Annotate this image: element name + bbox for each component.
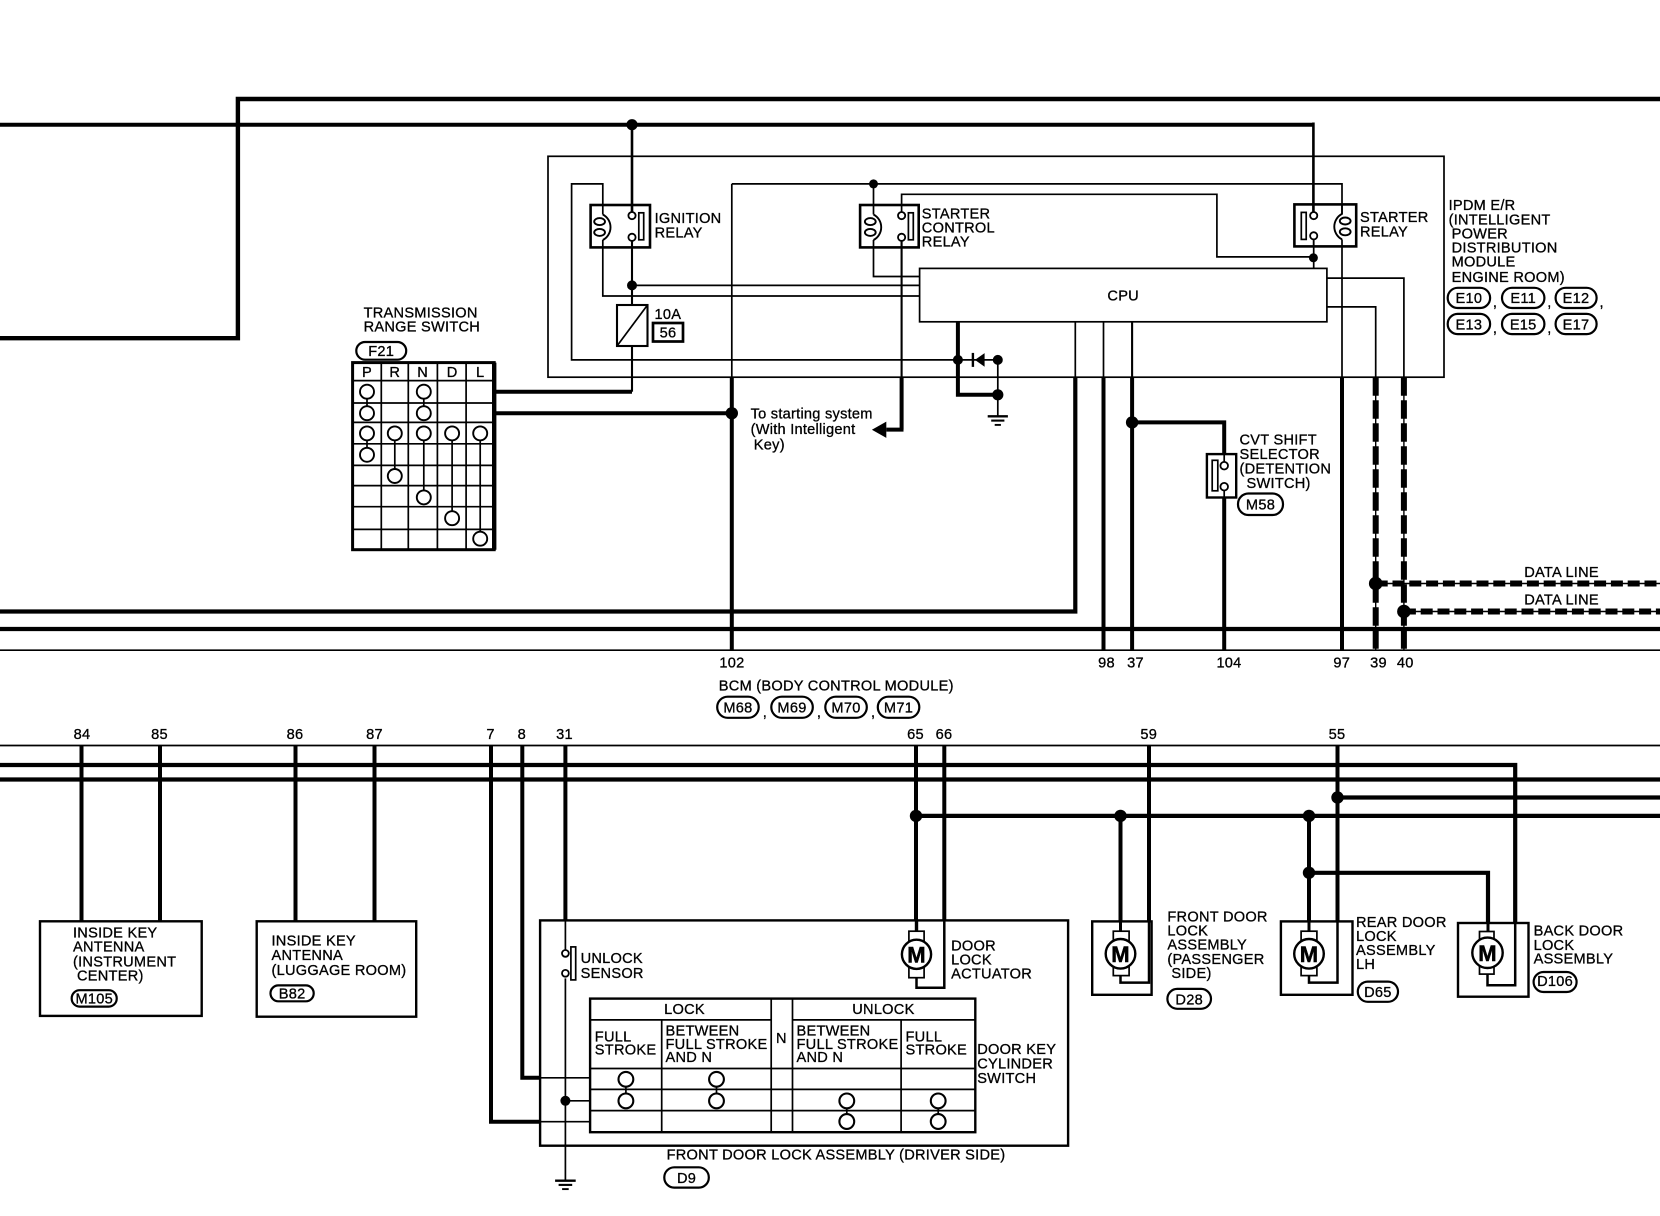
svg-text:CENTER): CENTER) (77, 969, 144, 985)
label door key cylinder switch (977, 1042, 1056, 1087)
label unlock sensor (581, 951, 644, 982)
ground IPDM (988, 416, 1008, 425)
wire pin 84 (80, 746, 84, 922)
junction sensor ground row2 (560, 1096, 570, 1106)
wire pin 65 (914, 746, 919, 933)
svg-text:40: 40 (1397, 655, 1414, 671)
door lock actuator motor M (902, 931, 931, 978)
wire ignition contact down (631, 241, 633, 286)
svg-text:ASSEMBLY: ASSEMBLY (1534, 952, 1614, 968)
wire CVT to pin 104 (1222, 498, 1226, 651)
front passenger motor M (1106, 931, 1136, 975)
wire TRS row2 to starting system node (494, 411, 732, 415)
label front door lock assembly driver side (667, 1147, 1006, 1163)
svg-text:UNLOCK: UNLOCK (581, 951, 643, 967)
wire CPU pin 98 (1103, 322, 1105, 650)
pin 65 (907, 727, 924, 743)
fuse number 56 (653, 323, 683, 342)
junction below ignition relay (627, 280, 637, 290)
bus line C (0, 765, 1515, 923)
node to starting system (726, 407, 738, 419)
connector E15 (1502, 314, 1552, 337)
front door lock assembly passenger box (1092, 921, 1151, 994)
svg-text:,: , (817, 705, 821, 721)
label BCM (719, 679, 954, 695)
svg-text:10A: 10A (655, 307, 682, 323)
svg-text:M71: M71 (884, 701, 913, 717)
svg-text:IPDM E/R: IPDM E/R (1449, 198, 1516, 214)
svg-text:M: M (1111, 942, 1130, 967)
svg-text:R: R (389, 365, 400, 381)
front door lock assembly driver side box (540, 920, 1068, 1145)
pin 104 (1216, 655, 1241, 671)
svg-text:55: 55 (1329, 727, 1346, 743)
wire junction to fuse (631, 285, 633, 305)
wire pin 86 (294, 746, 298, 922)
junction front passenger feed (1114, 810, 1126, 822)
svg-text:(LUGGAGE ROOM): (LUGGAGE ROOM) (272, 963, 407, 979)
svg-text:39: 39 (1370, 655, 1387, 671)
label starter relay (1360, 210, 1429, 241)
svg-text:E13: E13 (1456, 317, 1483, 333)
door key switch contacts (619, 1072, 946, 1129)
wire rear LH motor feed (1307, 816, 1311, 931)
svg-text:D65: D65 (1364, 985, 1392, 1001)
label full stroke right (906, 1030, 968, 1059)
label unlock (852, 1002, 914, 1018)
svg-text:M: M (1478, 941, 1497, 966)
svg-text:RANGE SWITCH: RANGE SWITCH (364, 320, 481, 336)
wire pin 85 (158, 746, 162, 922)
wire pin 55 to rear motor (1309, 746, 1338, 983)
wire battery feed upper (0, 99, 1660, 338)
svg-text:D: D (447, 365, 458, 381)
svg-text:7: 7 (486, 727, 494, 743)
CPU (920, 268, 1327, 321)
svg-text:CPU: CPU (1107, 289, 1139, 305)
pin 39 (1370, 655, 1387, 671)
wire TRS row1 to fuse (494, 390, 632, 394)
door key cylinder switch table (590, 999, 975, 1133)
svg-text:84: 84 (74, 727, 91, 743)
svg-text:D9: D9 (677, 1171, 696, 1187)
label full stroke left (595, 1030, 657, 1059)
junction CVT branch (1126, 416, 1138, 428)
svg-text:102: 102 (719, 655, 744, 671)
svg-text:66: 66 (936, 727, 953, 743)
pin 31 (556, 727, 573, 743)
label rear door lock assembly LH (1356, 915, 1447, 973)
svg-text:E12: E12 (1563, 291, 1590, 307)
connector E12 (1556, 288, 1604, 311)
junction diode left (953, 355, 963, 365)
connector F21 (356, 342, 406, 360)
wire to ground (997, 360, 999, 416)
svg-text:SENSOR: SENSOR (581, 966, 644, 982)
pin 97 (1333, 655, 1350, 671)
inside key antenna instrument center box (40, 921, 202, 1016)
connector D65 (1358, 982, 1398, 1002)
svg-text:E11: E11 (1510, 291, 1536, 307)
pin 40 (1397, 655, 1414, 671)
svg-text:86: 86 (287, 727, 304, 743)
svg-text:LH: LH (1356, 957, 1375, 973)
wire starter relay contact bottom to CPU (1313, 239, 1315, 268)
svg-text:37: 37 (1127, 655, 1144, 671)
label data line 1 (1524, 565, 1599, 581)
pin 7 (486, 727, 494, 743)
svg-text:MODULE: MODULE (1452, 254, 1516, 270)
svg-text:L: L (476, 365, 484, 381)
svg-text:,: , (1493, 295, 1497, 311)
wire starter control coil bottom to CPU (874, 247, 920, 276)
connector M58 (1238, 494, 1283, 516)
junction coil feed net (869, 179, 878, 188)
label ignition relay (655, 211, 722, 241)
svg-text:SIDE): SIDE) (1171, 966, 1211, 982)
svg-text:LOCK: LOCK (664, 1002, 705, 1018)
connector M105 (72, 990, 117, 1008)
wire to CVT switch (1132, 422, 1224, 454)
svg-text:ANTENNA: ANTENNA (73, 940, 144, 956)
pin 59 (1140, 727, 1157, 743)
unlock sensor (562, 947, 576, 980)
svg-text:To starting system: To starting system (751, 407, 873, 423)
wire ignition coil bottom to CPU (603, 247, 920, 296)
svg-text:,: , (871, 705, 875, 721)
wire back door motor right feed (1488, 923, 1516, 985)
connector B82 (271, 985, 314, 1002)
svg-text:,: , (1493, 321, 1497, 337)
svg-text:59: 59 (1140, 727, 1157, 743)
wire net 184 to starter relay coil (732, 184, 1342, 215)
junction data line 1 (1370, 577, 1382, 589)
label data line 2 (1524, 593, 1599, 609)
bus line B (0, 627, 1660, 631)
pin 87 (366, 727, 383, 743)
pin 98 (1098, 655, 1115, 671)
wire fuse to transmission range switch (631, 346, 633, 392)
svg-text:M70: M70 (831, 701, 860, 717)
pin 66 (936, 727, 953, 743)
connector D9 (664, 1167, 709, 1187)
wire pin 102 (730, 413, 734, 650)
wire CPU right to data line 40 (1327, 278, 1404, 377)
pin 37 (1127, 655, 1144, 671)
svg-text:F21: F21 (368, 344, 394, 360)
wire ignition contact to CPU (632, 284, 920, 286)
svg-text:31: 31 (556, 727, 573, 743)
transmission range switch table (353, 363, 495, 550)
connector E17 (1556, 314, 1597, 334)
connector M69 (771, 697, 821, 721)
junction ignition relay feed (626, 119, 637, 130)
svg-text:RELAY: RELAY (922, 234, 970, 250)
pin 86 (287, 727, 304, 743)
svg-text:N: N (417, 365, 428, 381)
ignition relay (591, 205, 650, 247)
svg-text:85: 85 (151, 727, 168, 743)
bus door unlock y797 (1338, 795, 1660, 799)
junction pin 55 bus (1331, 791, 1343, 803)
label IPDM E/R (1449, 198, 1565, 286)
connector M68 (717, 697, 767, 721)
svg-text:M105: M105 (75, 992, 113, 1008)
wire CPU right to data line 39 (1327, 307, 1376, 377)
BCM bottom edge (0, 745, 1660, 747)
wire starter control contact to starting system arrow (872, 241, 904, 438)
connector D106 (1534, 972, 1577, 992)
svg-text:(With Intelligent: (With Intelligent (751, 422, 856, 438)
svg-text:104: 104 (1216, 655, 1241, 671)
wire starter control coil top (873, 184, 875, 205)
connector D28 (1167, 989, 1211, 1009)
wire starter relay coil to pin 97 (1341, 246, 1343, 650)
data line 1 horizontal (1376, 583, 1660, 585)
svg-text:ENGINE ROOM): ENGINE ROOM) (1452, 270, 1565, 286)
svg-text:M: M (1300, 942, 1319, 967)
bus door lock y816 (916, 814, 1660, 818)
svg-text:,: , (1547, 295, 1551, 311)
wire pin 59 to passenger motor (1121, 746, 1150, 983)
svg-text:97: 97 (1333, 655, 1350, 671)
label to starting system (751, 407, 873, 454)
pin 102 (719, 655, 744, 671)
svg-text:FRONT DOOR LOCK ASSEMBLY (DRIV: FRONT DOOR LOCK ASSEMBLY (DRIVER SIDE) (667, 1147, 1006, 1163)
svg-text:Key): Key) (754, 438, 785, 454)
svg-text:P: P (362, 365, 372, 381)
diode D (958, 353, 998, 367)
svg-text:56: 56 (660, 326, 677, 342)
label between full stroke and n left (666, 1024, 768, 1066)
wire CPU to diode node (956, 322, 960, 360)
svg-text:,: , (763, 705, 767, 721)
label transmission range switch (364, 305, 481, 335)
svg-text:,: , (1600, 295, 1604, 311)
label fuse 10A (655, 307, 682, 323)
connector E11 (1502, 288, 1552, 311)
label inside key antenna instrument center (73, 926, 176, 985)
junction starter relay contact node (1309, 253, 1318, 262)
bus line D (0, 777, 1660, 781)
junction pin 65 bus (910, 810, 922, 822)
svg-text:E17: E17 (1563, 317, 1590, 333)
svg-text:ACTUATOR: ACTUATOR (951, 967, 1032, 983)
svg-text:D28: D28 (1175, 992, 1203, 1008)
junction data line 2 (1398, 605, 1410, 617)
wire pin 8 to door key switch row 1 (522, 746, 590, 1078)
svg-text:65: 65 (907, 727, 924, 743)
wire ignition coil top loop to diode node (572, 184, 958, 360)
pin 55 (1329, 727, 1346, 743)
label CVT shift selector (1240, 432, 1332, 492)
back door motor M (1472, 932, 1502, 975)
label lock (664, 1002, 705, 1018)
svg-text:ANTENNA: ANTENNA (272, 948, 343, 964)
label back door lock assembly (1534, 924, 1624, 968)
wire pin 66 to actuator (917, 746, 945, 988)
ground door lock (555, 1181, 576, 1189)
svg-text:RELAY: RELAY (1360, 224, 1408, 240)
svg-text:M58: M58 (1246, 498, 1275, 514)
rear LH motor M (1294, 931, 1324, 975)
svg-text:DATA LINE: DATA LINE (1524, 593, 1599, 609)
wire battery feed lower (0, 123, 1313, 213)
wire pin 87 (373, 746, 377, 922)
starter relay (1294, 204, 1356, 246)
connector M71 (878, 697, 920, 718)
pin 85 (151, 727, 168, 743)
inside key antenna luggage room box (257, 921, 417, 1016)
label inside key antenna luggage room (272, 934, 407, 979)
back door lock assembly box (1458, 923, 1529, 997)
data line 2 horizontal (1404, 611, 1660, 613)
data line 40 dashed vertical (1403, 377, 1405, 650)
rear door lock assembly LH box (1281, 921, 1353, 994)
junction rear LH feed (1303, 810, 1315, 822)
IPDM E/R enclosure box (548, 156, 1444, 377)
wire pin 31 to unlock sensor (563, 746, 567, 950)
svg-text:DATA LINE: DATA LINE (1524, 565, 1599, 581)
wire junction to door key switch row 2 (565, 1100, 590, 1102)
svg-text:AND N: AND N (666, 1050, 713, 1066)
data line 39 dashed vertical (1375, 377, 1377, 650)
label between full stroke and n right (797, 1024, 899, 1066)
svg-text:BCM (BODY CONTROL MODULE): BCM (BODY CONTROL MODULE) (719, 679, 954, 695)
svg-text:B82: B82 (279, 987, 306, 1003)
fuse 10A (617, 305, 648, 346)
svg-text:M68: M68 (723, 701, 752, 717)
wire ignition relay feed (631, 125, 634, 213)
svg-text:STROKE: STROKE (595, 1043, 657, 1059)
wire front passenger motor feed (1119, 816, 1123, 931)
svg-text:SWITCH): SWITCH) (1247, 476, 1311, 492)
svg-text:8: 8 (518, 727, 526, 743)
junction back door branch (1303, 867, 1315, 879)
pin 84 (74, 727, 91, 743)
label n (776, 1031, 787, 1047)
wire CPU pin 37 (1131, 322, 1133, 650)
wire CPU pin to bus A (0, 322, 1075, 612)
wire pin 7 to door key switch row 3 (491, 746, 590, 1122)
svg-text:N: N (776, 1031, 787, 1047)
CVT shift selector detention switch (1207, 454, 1236, 497)
junction data line repaint (1369, 577, 1411, 619)
BCM top edge (0, 649, 1660, 651)
wire starter control contact top to CPU right net (902, 194, 1314, 257)
wire sensor to ground and row 2 (564, 978, 566, 1180)
svg-text:RELAY: RELAY (655, 225, 703, 241)
label starter control relay (922, 206, 995, 250)
pin 8 (518, 727, 526, 743)
svg-text:UNLOCK: UNLOCK (852, 1002, 914, 1018)
svg-text:M: M (907, 942, 926, 967)
svg-text:98: 98 (1098, 655, 1115, 671)
wire node 102 riser (731, 184, 733, 413)
starter control relay (860, 205, 919, 247)
svg-text:,: , (1547, 321, 1551, 337)
label front door lock assembly passenger (1167, 910, 1267, 982)
label door lock actuator (951, 939, 1032, 983)
connector E13 (1448, 314, 1498, 337)
junction diode right (993, 355, 1003, 365)
svg-text:STROKE: STROKE (906, 1043, 968, 1059)
connector M70 (825, 697, 875, 721)
svg-text:E15: E15 (1510, 317, 1537, 333)
svg-text:SWITCH: SWITCH (977, 1071, 1036, 1087)
svg-text:D106: D106 (1537, 974, 1573, 990)
svg-text:M69: M69 (777, 701, 806, 717)
wire back door motor feed (1309, 873, 1488, 932)
svg-text:E10: E10 (1456, 291, 1483, 307)
wire CPU ground leg (958, 360, 998, 395)
connector E10 (1448, 288, 1498, 311)
svg-text:AND N: AND N (797, 1050, 844, 1066)
junction ground node (992, 389, 1003, 400)
svg-text:87: 87 (366, 727, 383, 743)
